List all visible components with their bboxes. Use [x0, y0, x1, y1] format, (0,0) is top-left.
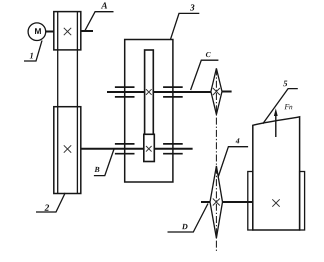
sprocket D (lower) — [210, 166, 223, 238]
bearing cross lower shaft — [146, 146, 152, 152]
chain centerline — [215, 68, 217, 251]
label 5 leader — [263, 89, 298, 124]
gear big (upper shaft) — [145, 50, 154, 134]
shaft stub left of D — [201, 201, 210, 203]
gearbox upper shaft — [107, 91, 211, 93]
label 5 — [283, 81, 287, 87]
shaft A stub — [81, 30, 93, 32]
gearbox housing — [125, 40, 173, 183]
label C — [206, 52, 211, 57]
label 4 leader — [218, 147, 248, 178]
roller body 5 — [253, 117, 300, 230]
label 2 — [45, 205, 50, 211]
bearing cross top pulley — [64, 28, 71, 35]
label D — [182, 224, 188, 229]
label D leader — [168, 204, 209, 233]
label B — [94, 167, 99, 172]
bearing cross upper shaft — [146, 89, 152, 95]
label 3 leader — [171, 13, 200, 39]
gearbox lower shaft B — [81, 148, 193, 150]
label C leader — [191, 60, 219, 90]
pulley bottom — [54, 107, 81, 194]
belt — [58, 12, 78, 194]
gear small (lower shaft) — [144, 134, 155, 161]
motor shaft — [46, 31, 54, 33]
motor M — [28, 23, 46, 41]
label A — [101, 2, 107, 8]
label 1 — [30, 53, 33, 59]
label 4 — [236, 138, 240, 143]
shaft D to roller — [223, 201, 253, 203]
bearing cross sprocket C — [213, 88, 220, 95]
pulley top — [54, 12, 81, 50]
label B leader — [94, 149, 114, 176]
bearing upper-left — [115, 87, 135, 97]
roller bearing block left — [248, 172, 253, 231]
bearing lower-right — [163, 144, 183, 154]
bearing upper-right — [163, 87, 183, 97]
label 2 leader — [36, 193, 65, 212]
label Fn — [284, 104, 289, 109]
bearing cross bottom pulley — [64, 145, 71, 152]
sprocket C (upper) — [211, 68, 222, 114]
bearing cross sprocket D — [213, 199, 220, 206]
label 3 — [190, 4, 194, 10]
bearing cross roller — [272, 199, 279, 206]
roller bearing block right — [300, 172, 305, 231]
bearing lower-left — [115, 144, 135, 154]
label 1 leader — [24, 41, 42, 62]
shaft stub right of C — [222, 91, 232, 93]
force Fn arrow — [274, 108, 278, 137]
label A leader — [85, 12, 114, 31]
